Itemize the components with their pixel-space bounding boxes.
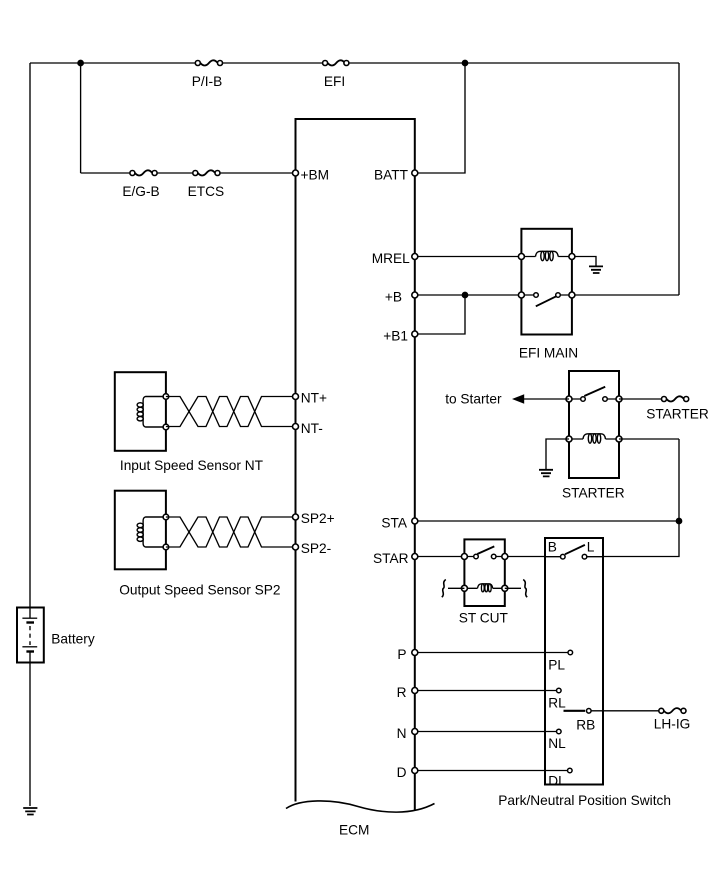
- sensor NT coil: [143, 397, 166, 428]
- svg-text:L: L: [587, 540, 595, 555]
- wire: left battery feed vertical: [29, 63, 31, 806]
- relay ST CUT switch: [464, 556, 504, 558]
- contact NL: [557, 729, 562, 734]
- ECM pin +B1: [412, 331, 418, 337]
- break mark left of ST CUT coil: [442, 580, 446, 598]
- Park/Neutral Position Switch box: [545, 538, 603, 785]
- relay STARTER switch: [569, 398, 619, 400]
- junction A: [78, 60, 83, 65]
- relay EFI MAIN switch: [521, 294, 572, 296]
- ECM pin STA: [412, 518, 418, 524]
- svg-text:E/G-B: E/G-B: [122, 184, 159, 199]
- wire: EFI MAIN switch to right vertical: [572, 294, 679, 296]
- svg-text:LH-IG: LH-IG: [654, 716, 691, 731]
- sensor SP2 pins: [163, 514, 169, 520]
- wire: starter switch to STARTER fuse: [619, 398, 662, 400]
- svg-text:STAR: STAR: [373, 551, 409, 566]
- svg-text:SP2-: SP2-: [301, 541, 331, 556]
- ECM wavy bottom: [286, 801, 435, 812]
- ECM pin R: [412, 688, 418, 694]
- sensor SP2 box: [115, 491, 166, 570]
- ECM pin NT+: [293, 394, 299, 400]
- fuse EFI: [323, 60, 349, 65]
- relay EFI MAIN pins: [518, 254, 524, 260]
- ECM pin N: [412, 729, 418, 735]
- fuse STARTER: [662, 396, 689, 401]
- svg-text:RB: RB: [576, 718, 595, 733]
- relay STARTER pins: [566, 396, 572, 402]
- contact L: [582, 554, 587, 559]
- ground at EFI MAIN coil: [575, 257, 596, 267]
- ECM pin SP2+: [293, 514, 299, 520]
- ECM pin +B: [412, 292, 418, 298]
- svg-text:EFI MAIN: EFI MAIN: [519, 345, 578, 360]
- junction +B / +B1 node: [462, 292, 467, 297]
- wire: BATT branch: [415, 63, 465, 173]
- fuse ETCS: [193, 170, 220, 175]
- ECM pin MREL: [412, 254, 418, 260]
- wire: MREL to EFI MAIN coil: [415, 256, 522, 258]
- svg-text:SP2+: SP2+: [301, 511, 335, 526]
- fuse E/G-B: [130, 170, 157, 175]
- ECM pin NT-: [293, 424, 299, 430]
- wire: ST CUT coil stubs: [448, 587, 521, 589]
- svg-text:B: B: [548, 540, 557, 555]
- svg-text:BATT: BATT: [374, 167, 409, 182]
- svg-text:EFI: EFI: [324, 74, 345, 89]
- ECM pin SP2-: [293, 544, 299, 550]
- wire: +B1 riser to +B node: [415, 295, 465, 334]
- relay STARTER box: [569, 371, 619, 478]
- wire: top feed from battery line to right drop: [30, 62, 679, 64]
- svg-text:RL: RL: [548, 696, 566, 711]
- blade RB: [564, 710, 586, 712]
- svg-text:+B: +B: [385, 289, 402, 304]
- relay ST CUT pins: [461, 554, 467, 560]
- svg-text:DL: DL: [548, 774, 566, 789]
- contact DL: [568, 768, 573, 773]
- wire: RB contact to LH-IG fuse: [591, 710, 659, 712]
- twisted pair SP2: [166, 517, 296, 547]
- contact RB: [587, 709, 592, 714]
- wire: P to PL contact: [415, 652, 571, 654]
- wire: right vertical drop to EFI MAIN switch: [678, 63, 680, 295]
- wire: to Starter arrow wire: [523, 398, 569, 400]
- svg-text:STARTER: STARTER: [646, 407, 709, 422]
- fuse LH-IG: [659, 708, 686, 713]
- svg-text:ST CUT: ST CUT: [459, 611, 509, 626]
- relay STARTER coil: [569, 438, 619, 440]
- svg-text:STARTER: STARTER: [562, 486, 625, 501]
- svg-text:Battery: Battery: [51, 632, 95, 647]
- svg-text:MREL: MREL: [372, 251, 410, 266]
- svg-text:+B1: +B1: [383, 328, 408, 343]
- svg-text:P: P: [397, 647, 406, 662]
- wire: starter coil to ground: [546, 439, 569, 470]
- svg-text:R: R: [397, 685, 407, 700]
- svg-text:Park/Neutral Position Switch: Park/Neutral Position Switch: [498, 793, 671, 808]
- wire: drop from junction A to second fuse row: [80, 63, 82, 173]
- junction STA node: [676, 518, 681, 523]
- wire: D to DL contact: [415, 770, 570, 772]
- svg-text:ETCS: ETCS: [188, 184, 225, 199]
- battery box: [17, 608, 44, 663]
- svg-text:D: D: [397, 765, 407, 780]
- ECM pin P: [412, 650, 418, 656]
- relay ST CUT box: [464, 539, 504, 606]
- wire: N to NL contact: [415, 731, 559, 733]
- svg-text:NT+: NT+: [301, 391, 327, 406]
- wire: second fuse row to +BM: [81, 172, 296, 174]
- svg-text:STA: STA: [381, 515, 407, 530]
- sensor NT box: [115, 372, 166, 451]
- svg-text:Output Speed Sensor SP2: Output Speed Sensor SP2: [119, 583, 280, 598]
- svg-text:NT-: NT-: [301, 421, 323, 436]
- svg-text:PL: PL: [548, 657, 565, 672]
- fuse P/I-B: [195, 60, 222, 65]
- svg-text:N: N: [397, 726, 407, 741]
- ECM pin STAR: [412, 554, 418, 560]
- ground at STARTER coil: [539, 470, 553, 477]
- ECM pin +BM: [293, 170, 299, 176]
- ground at battery: [23, 808, 37, 815]
- wire: starter coil down to STA node and B-L row: [603, 439, 679, 557]
- ECM pin BATT: [412, 170, 418, 176]
- ECM pin D: [412, 768, 418, 774]
- wire: starter coil right to STA node: [619, 438, 679, 440]
- wire: STAR row through ST CUT to PNP switch: [415, 556, 545, 558]
- contact B: [561, 554, 566, 559]
- sensor SP2 coil: [143, 517, 166, 547]
- svg-text:ECM: ECM: [339, 823, 369, 838]
- svg-text:Input Speed Sensor NT: Input Speed Sensor NT: [120, 458, 264, 473]
- break mark right of ST CUT coil: [523, 580, 527, 598]
- wire: STA row to starter branch: [415, 520, 679, 522]
- battery cell plates: [29, 608, 31, 619]
- svg-text:P/I-B: P/I-B: [192, 74, 222, 89]
- svg-text:to Starter: to Starter: [445, 391, 502, 406]
- twisted pair NT: [166, 397, 296, 427]
- relay ST CUT coil: [464, 587, 504, 589]
- blade B-L: [565, 545, 585, 554]
- sensor NT pins: [163, 394, 169, 400]
- contact PL: [568, 650, 573, 655]
- ECM box: [296, 119, 415, 810]
- arrow to Starter: [512, 394, 524, 404]
- wire: B-L row inner stubs: [545, 556, 603, 558]
- contact RL: [557, 688, 562, 693]
- junction B (BATT branch): [462, 60, 467, 65]
- relay EFI MAIN box: [521, 229, 572, 335]
- svg-text:NL: NL: [548, 736, 566, 751]
- wire: R to RL contact: [415, 690, 559, 692]
- relay EFI MAIN coil: [521, 256, 572, 258]
- svg-text:+BM: +BM: [301, 167, 330, 182]
- wire: +B to EFI MAIN switch: [415, 294, 522, 296]
